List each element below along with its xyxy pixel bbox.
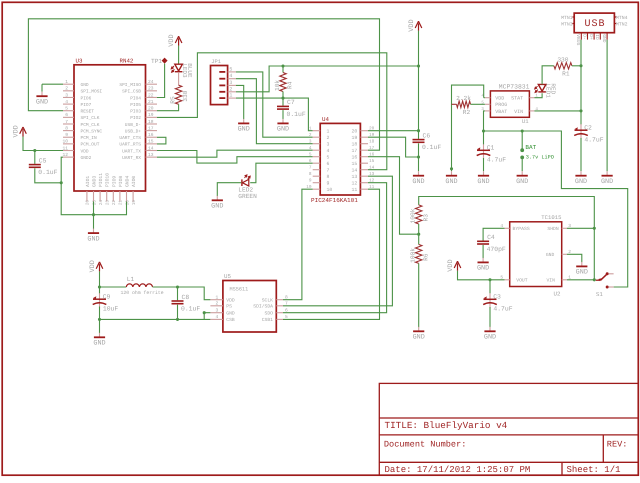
svg-text:12: 12	[62, 152, 68, 158]
wire C5 top tap	[34, 151, 36, 164]
test point TP1	[162, 58, 168, 64]
svg-text:14: 14	[352, 168, 358, 174]
capacitor C6	[413, 132, 442, 151]
junction R2 gnd	[450, 167, 453, 170]
svg-text:4.7uF: 4.7uF	[493, 306, 512, 313]
svg-text:16: 16	[369, 153, 375, 158]
VDD symbol left of U3	[13, 125, 27, 137]
svg-text:PIO10: PIO10	[105, 173, 111, 187]
svg-text:R4: R4	[287, 81, 294, 89]
wire R4 top lead	[282, 66, 284, 73]
resistor R6	[410, 244, 430, 263]
svg-text:21: 21	[119, 200, 124, 206]
ground below R2	[445, 171, 457, 186]
svg-text:C8: C8	[182, 294, 190, 301]
svg-text:13: 13	[148, 152, 154, 158]
svg-text:GND: GND	[484, 334, 496, 342]
svg-text:GND: GND	[412, 178, 424, 186]
wire U4 pin16 to divider	[368, 157, 419, 235]
svg-text:4: 4	[216, 314, 219, 320]
wire gnd rail to U5	[100, 318, 211, 320]
junction R4 top	[281, 64, 284, 67]
wire LED2 cathode to GND	[217, 183, 241, 196]
svg-text:VDD: VDD	[408, 19, 416, 31]
svg-text:14: 14	[369, 166, 375, 171]
capacitor C3	[483, 293, 513, 312]
wire R3-R6 link	[418, 224, 420, 244]
wire U1 VIN to VBUS	[534, 110, 581, 112]
junction GND2 net	[60, 181, 63, 184]
LED LED1	[535, 83, 557, 98]
svg-text:19: 19	[132, 200, 137, 206]
svg-text:GND2: GND2	[81, 155, 92, 161]
junction U3 bottom gnd	[92, 213, 95, 216]
svg-text:C6: C6	[423, 132, 431, 139]
svg-text:PIO6: PIO6	[81, 95, 92, 101]
svg-text:VBUS: VBUS	[575, 34, 581, 45]
svg-text:18: 18	[148, 119, 154, 125]
svg-text:PIO4: PIO4	[130, 95, 141, 101]
svg-text:MTN3: MTN3	[561, 22, 573, 28]
junction VDD rail	[417, 64, 420, 67]
wire U2 VIN	[567, 279, 594, 281]
wire R3 top to U2 VIN net	[419, 197, 595, 280]
svg-text:2: 2	[309, 133, 312, 138]
svg-text:C2: C2	[584, 125, 592, 132]
wire LED3 to R5	[178, 73, 180, 85]
wire VDD rail JP area	[283, 65, 419, 67]
junction C9 bottom	[98, 318, 101, 321]
svg-text:MCP73831: MCP73831	[499, 84, 530, 91]
svg-text:MS5611: MS5611	[230, 287, 249, 293]
wire SCLK to U4 pin10	[283, 189, 313, 300]
svg-text:1: 1	[229, 93, 232, 99]
svg-text:100k: 100k	[410, 248, 417, 263]
wire L1 left lead	[100, 286, 127, 288]
svg-text:R2: R2	[463, 109, 471, 116]
svg-text:6: 6	[65, 112, 68, 118]
IC U4 PIC24F16KA101	[306, 116, 374, 204]
capacitor C5	[29, 157, 58, 176]
svg-text:GND: GND	[36, 98, 48, 106]
svg-text:20: 20	[352, 129, 358, 135]
svg-text:11: 11	[62, 145, 68, 151]
svg-text:19: 19	[352, 135, 358, 141]
VDD symbol top middle	[408, 19, 422, 31]
svg-text:MTN2: MTN2	[616, 22, 628, 28]
svg-text:VDD: VDD	[447, 259, 455, 271]
svg-text:SPI_CLK: SPI_CLK	[81, 115, 100, 121]
svg-text:7: 7	[65, 119, 68, 125]
ground below C3	[484, 327, 496, 342]
svg-text:S1: S1	[596, 291, 603, 298]
title block	[379, 383, 638, 475]
svg-text:3: 3	[65, 92, 68, 98]
svg-text:8: 8	[309, 172, 312, 177]
wire L1 right lead	[153, 286, 178, 288]
junction VIN VBUS	[579, 109, 582, 112]
svg-text:SHDN: SHDN	[547, 226, 558, 232]
capacitor C9	[93, 293, 119, 312]
wire STAT to LED1	[534, 93, 542, 97]
svg-text:2.2k: 2.2k	[456, 95, 471, 102]
wire VDD to LED3	[178, 46, 180, 64]
wire C5 bottom to GND2 net	[35, 168, 61, 183]
svg-text:Sheet: 1/1: Sheet: 1/1	[567, 465, 621, 475]
svg-text:VDD: VDD	[226, 298, 235, 304]
wire VDD to VOUT	[458, 271, 505, 280]
svg-text:R6: R6	[422, 253, 429, 261]
svg-text:VDD: VDD	[495, 96, 504, 102]
wire JP1 pin5 to U4 pin2	[236, 72, 313, 137]
svg-text:CSB: CSB	[226, 317, 235, 323]
wire JP1 pin2 to VDD net	[236, 66, 283, 92]
wire U4 pin20 to VDD	[368, 130, 419, 132]
svg-text:1: 1	[309, 127, 312, 132]
ground below C4	[477, 258, 489, 273]
ground below C6	[412, 171, 424, 186]
svg-text:PS: PS	[226, 304, 232, 310]
resistor R4	[274, 73, 294, 92]
svg-text:10: 10	[62, 139, 68, 145]
svg-text:330: 330	[557, 56, 568, 63]
junction MCLR at R4/C7	[281, 97, 284, 100]
svg-text:4: 4	[229, 73, 232, 79]
svg-text:VDD: VDD	[81, 149, 89, 154]
ground near U3 pin1	[36, 92, 48, 107]
wire USB GND down	[606, 40, 608, 172]
svg-text:17: 17	[369, 146, 375, 151]
wire C9 top	[99, 287, 101, 294]
pin header JP1	[211, 59, 237, 105]
svg-text:8: 8	[327, 174, 330, 180]
wire VBAT rail	[484, 131, 628, 287]
wire UART_RX U3 pin13 to U4 pin4	[157, 150, 313, 157]
svg-text:BLUE: BLUE	[186, 63, 193, 78]
wire SDI/SDA to U4 pin13	[283, 176, 392, 306]
wire C3 top	[489, 280, 491, 294]
junction at C5 top	[33, 149, 36, 152]
svg-text:PIO5: PIO5	[130, 102, 141, 108]
svg-text:PIO11: PIO11	[98, 173, 104, 187]
ground below U3	[87, 229, 99, 244]
svg-text:2: 2	[327, 135, 330, 141]
switch S1	[596, 272, 614, 298]
wire R4 bottom lead	[282, 92, 284, 99]
wire C9 to GND	[99, 319, 101, 333]
VDD symbol near MS5611	[89, 260, 103, 272]
svg-text:4.7uF: 4.7uF	[487, 157, 506, 164]
IC U5 MS5611 pressure sensor	[210, 273, 288, 332]
svg-text:VOUT: VOUT	[516, 278, 527, 284]
svg-text:GND: GND	[445, 178, 457, 186]
svg-text:7: 7	[309, 166, 312, 171]
svg-text:VDD: VDD	[89, 260, 97, 272]
wire TP1 to U3 pin22	[157, 64, 165, 98]
svg-text:SPI_CSB: SPI_CSB	[122, 89, 141, 95]
svg-text:18: 18	[352, 142, 358, 148]
svg-text:STAT: STAT	[511, 96, 523, 102]
svg-text:15: 15	[369, 159, 375, 164]
IC U1 MCP73831 charger	[481, 84, 538, 126]
wire C9 bottom	[99, 307, 101, 320]
svg-text:7: 7	[327, 168, 330, 174]
wire C3 bottom to GND	[489, 307, 491, 327]
svg-text:U5: U5	[224, 273, 231, 280]
svg-text:6: 6	[309, 159, 312, 164]
svg-text:120 ohm ferrite: 120 ohm ferrite	[121, 290, 164, 296]
svg-text:UART_RX: UART_RX	[122, 156, 141, 161]
svg-text:TITLE: BlueFlyVario v4: TITLE: BlueFlyVario v4	[385, 420, 508, 431]
svg-text:VBAT: VBAT	[495, 109, 507, 115]
wire VDD down to L1	[99, 271, 101, 287]
wire C6 bottom	[418, 143, 420, 171]
svg-text:0.1uF: 0.1uF	[287, 111, 306, 118]
svg-text:24: 24	[99, 200, 104, 206]
svg-text:TP1: TP1	[151, 58, 162, 65]
svg-text:PIC24F16KA101: PIC24F16KA101	[311, 197, 358, 204]
svg-text:1: 1	[216, 295, 219, 301]
wire U3 pin1 to GND	[42, 83, 63, 85]
junction SHDN	[593, 227, 596, 230]
wire CSB to U4 pin11	[283, 189, 380, 319]
wire C8 link bottom	[177, 305, 179, 320]
svg-text:15: 15	[352, 161, 358, 167]
wire LED2 anode to U4 pin6	[250, 163, 313, 183]
LED LED2	[238, 175, 257, 200]
svg-text:330: 330	[182, 90, 189, 101]
svg-text:D-: D-	[581, 34, 587, 40]
wire to bottom ground	[93, 215, 95, 229]
IC U2 TC1015 regulator	[500, 214, 571, 297]
wire BYPASS to C4	[483, 228, 504, 240]
svg-text:470pF: 470pF	[487, 246, 506, 253]
wire U3 pin19 to U4 pin14	[157, 53, 387, 170]
svg-text:R5: R5	[169, 96, 176, 104]
svg-text:11: 11	[352, 187, 358, 193]
junction C8 bottom	[176, 318, 179, 321]
svg-text:6: 6	[327, 161, 330, 167]
svg-text:C9: C9	[103, 294, 111, 301]
wire R2 net vertical	[452, 85, 484, 166]
capacitor C7	[277, 99, 306, 118]
svg-text:14: 14	[148, 145, 154, 151]
wire VDD down through C6 top	[418, 31, 420, 139]
wire U2 GND pin	[567, 254, 582, 262]
svg-text:2: 2	[65, 86, 68, 92]
svg-text:VDD: VDD	[168, 34, 176, 46]
node BAT+	[520, 148, 524, 152]
svg-text:CSB1: CSB1	[262, 317, 273, 323]
wire R6 bottom to GND	[418, 263, 420, 327]
svg-text:GND: GND	[81, 82, 89, 88]
junction BAT	[521, 129, 524, 132]
junction C6 bottom GND net	[417, 155, 420, 158]
svg-text:GND: GND	[211, 203, 223, 211]
ground below R6	[413, 327, 425, 342]
wire U5 GND dogleg	[204, 313, 210, 320]
svg-text:3: 3	[216, 308, 219, 314]
svg-text:20: 20	[148, 106, 154, 112]
svg-text:GND: GND	[576, 269, 588, 277]
svg-text:12: 12	[352, 181, 358, 187]
svg-text:GND: GND	[601, 34, 607, 43]
svg-text:15: 15	[148, 139, 154, 145]
svg-text:3.7v LiPO: 3.7v LiPO	[526, 154, 554, 160]
wire UART_CTS-RTS loopback	[157, 137, 166, 144]
junction L1 left	[98, 285, 101, 288]
svg-text:D+: D+	[588, 34, 594, 40]
resistor R5	[169, 85, 189, 104]
svg-text:2: 2	[229, 86, 232, 92]
svg-text:GND: GND	[477, 178, 489, 186]
svg-text:16: 16	[352, 155, 358, 161]
svg-text:23: 23	[148, 86, 154, 92]
svg-text:5: 5	[65, 106, 68, 112]
svg-text:1: 1	[65, 79, 68, 85]
svg-text:8: 8	[65, 125, 68, 131]
svg-text:C1: C1	[487, 145, 495, 152]
svg-text:C3: C3	[493, 294, 501, 301]
svg-text:19: 19	[148, 112, 154, 118]
svg-text:GND: GND	[575, 178, 587, 186]
svg-text:9: 9	[309, 179, 312, 184]
wire JP1 pin4 to U4 pin3	[236, 79, 313, 144]
capacitor C2	[574, 124, 604, 143]
svg-text:TC1015: TC1015	[541, 214, 561, 221]
wire R5 to U3 pin20	[157, 104, 179, 110]
ground below C2	[575, 171, 587, 186]
node BAT-	[520, 156, 524, 160]
svg-text:24: 24	[148, 79, 154, 85]
svg-text:SDO: SDO	[265, 311, 274, 317]
capacitor C8	[172, 294, 201, 313]
svg-text:U3: U3	[76, 57, 83, 64]
svg-text:22: 22	[148, 92, 154, 98]
inductor L1	[121, 276, 164, 296]
svg-text:GND: GND	[413, 334, 425, 342]
svg-text:U2: U2	[554, 291, 561, 298]
svg-text:Date: 17/11/2012 1:25:07 PM: Date: 17/11/2012 1:25:07 PM	[385, 465, 531, 475]
svg-text:GND3: GND3	[92, 176, 98, 187]
svg-text:GND: GND	[477, 265, 489, 273]
wire GND3 stub down	[93, 202, 95, 215]
wire to U1 VDD pin	[484, 97, 485, 99]
resistor R1	[554, 56, 572, 77]
svg-text:AIO0: AIO0	[131, 176, 137, 187]
junction U5 gnd pin	[203, 311, 206, 314]
wire C7 top	[282, 98, 284, 106]
svg-text:4: 4	[309, 146, 312, 151]
svg-text:GND: GND	[226, 311, 235, 317]
svg-text:GREEN: GREEN	[238, 193, 257, 200]
wire U3 pin12 GND2 down	[61, 157, 126, 215]
wire U1 VBAT to C1 top	[484, 111, 485, 145]
svg-text:AIO1: AIO1	[85, 176, 91, 187]
svg-text:21: 21	[148, 99, 154, 105]
svg-text:4: 4	[327, 148, 330, 154]
svg-text:PCM_SYNC: PCM_SYNC	[81, 128, 103, 134]
svg-text:ID: ID	[594, 34, 600, 40]
svg-text:GND: GND	[238, 126, 250, 134]
svg-text:BYPASS: BYPASS	[513, 226, 530, 232]
svg-text:USB: USB	[585, 19, 606, 30]
svg-text:VDD: VDD	[13, 125, 21, 137]
wire BAT tap	[521, 131, 523, 149]
svg-text:SCLK: SCLK	[262, 298, 273, 304]
svg-text:R1: R1	[562, 70, 570, 77]
svg-text:PCM_OUT: PCM_OUT	[81, 142, 100, 148]
svg-text:GND: GND	[546, 252, 555, 258]
svg-text:C7: C7	[287, 99, 295, 106]
svg-text:UART_RTS: UART_RTS	[119, 142, 141, 148]
wire JP1 pin3 to GND	[236, 85, 244, 119]
svg-text:PCM_CLK: PCM_CLK	[81, 122, 100, 128]
svg-text:2: 2	[216, 301, 219, 307]
svg-text:4.7uF: 4.7uF	[584, 137, 603, 144]
svg-text:U1: U1	[522, 118, 529, 125]
wire UART_TX U3 pin14 to U4 pin5	[157, 151, 313, 164]
junction C3 top	[488, 278, 491, 281]
ground below BAT	[516, 171, 528, 186]
svg-text:R3: R3	[422, 214, 429, 222]
svg-text:U4: U4	[322, 116, 329, 123]
svg-text:RESET: RESET	[81, 109, 95, 115]
wire R1 to VBUS	[572, 65, 581, 67]
svg-text:13: 13	[352, 174, 358, 180]
wire C8 link top	[177, 287, 179, 300]
wire R2 gnd tail	[451, 167, 453, 172]
svg-text:GND: GND	[516, 178, 528, 186]
wire LED1 to R1	[542, 66, 554, 85]
svg-text:L1: L1	[127, 276, 135, 283]
wire RESET net U3 pin5 to U4 pin17	[28, 19, 379, 150]
svg-text:GND: GND	[277, 126, 289, 134]
VDD symbol above LED3	[168, 34, 182, 46]
svg-text:20: 20	[369, 127, 375, 132]
svg-text:10uF: 10uF	[103, 306, 119, 313]
wire SHDN to VIN net	[567, 227, 594, 229]
svg-text:23: 23	[106, 200, 111, 206]
svg-text:GND: GND	[93, 340, 105, 348]
svg-text:C4: C4	[487, 234, 495, 241]
ground below USB	[601, 171, 613, 186]
resistor R2	[456, 95, 471, 116]
IC U3 RN42 bluetooth module	[62, 57, 157, 205]
svg-text:3: 3	[229, 80, 232, 86]
svg-text:USB_D-: USB_D-	[125, 122, 141, 128]
svg-text:PIO7: PIO7	[81, 102, 92, 108]
svg-text:UART_CTS: UART_CTS	[119, 135, 141, 141]
junction divider mid	[417, 233, 420, 236]
ground below JP1	[238, 119, 250, 134]
svg-text:0.1uF: 0.1uF	[38, 169, 57, 176]
svg-text:VIN: VIN	[514, 109, 523, 115]
svg-text:UART_TX: UART_TX	[122, 149, 141, 154]
svg-text:10k: 10k	[274, 80, 281, 91]
VDD symbol at U2 VOUT	[447, 259, 461, 271]
svg-text:BAT: BAT	[525, 144, 536, 151]
wire C7 bottom to GND	[282, 110, 284, 119]
wire VDD to U3 pin11	[23, 137, 63, 151]
junction VIN S1	[593, 278, 596, 281]
capacitor C1	[477, 144, 507, 163]
junction C8 top	[176, 285, 179, 288]
svg-text:PROG: PROG	[495, 102, 507, 108]
wire to U5 VDD	[178, 287, 211, 300]
ground U2 gnd pin	[576, 262, 588, 277]
svg-text:PCM_IN: PCM_IN	[81, 135, 98, 141]
